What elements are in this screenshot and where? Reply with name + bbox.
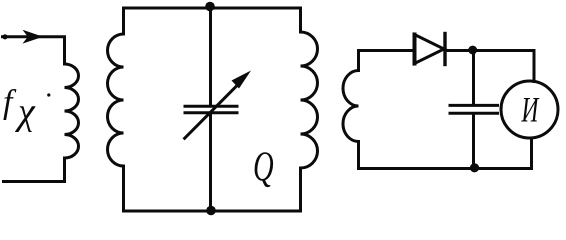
wire resonant loop left bottom (124, 166, 301, 211)
diode VD1 cathode bar (443, 34, 446, 65)
wire input bottom lead (4, 158, 65, 182)
speck (47, 93, 50, 96)
variable capacitor C1 arrow (185, 81, 242, 139)
wire center branch lower (209, 115, 212, 212)
node after diode (468, 46, 477, 55)
input arrowhead (23, 30, 44, 44)
wire detector loop top (359, 51, 414, 71)
inductor L1 (input coil, humps facing right) (65, 64, 79, 158)
svg-text:И: И (521, 89, 540, 129)
meter M1 circle (501, 81, 558, 138)
node capacitor bottom (470, 163, 479, 172)
input terminal dot (2, 34, 7, 39)
wire resonant loop top (124, 8, 301, 34)
diode VD1 anode triangle (415, 35, 445, 64)
inductor L4 (detector coil, humps facing left) (343, 71, 359, 142)
svg-text:χ: χ (14, 91, 36, 133)
wire input top lead (3, 37, 65, 64)
svg-text:f: f (3, 84, 17, 121)
wire capacitor branch lower (472, 115, 475, 169)
wire detector loop bottom (359, 138, 532, 169)
capacitor C2 plates (450, 104, 498, 107)
node bottom junction (206, 206, 216, 216)
svg-text:Q: Q (253, 143, 274, 190)
inductor L3 (right coil of loop, humps facing right) (301, 32, 318, 168)
inductor L2 (primary left coil, humps facing left) (108, 34, 124, 166)
wire center branch upper (209, 8, 212, 105)
wire capacitor branch upper (472, 52, 475, 104)
node top junction (205, 2, 215, 12)
variable capacitor C1 plates (185, 105, 237, 108)
wire diode to node (445, 51, 534, 82)
